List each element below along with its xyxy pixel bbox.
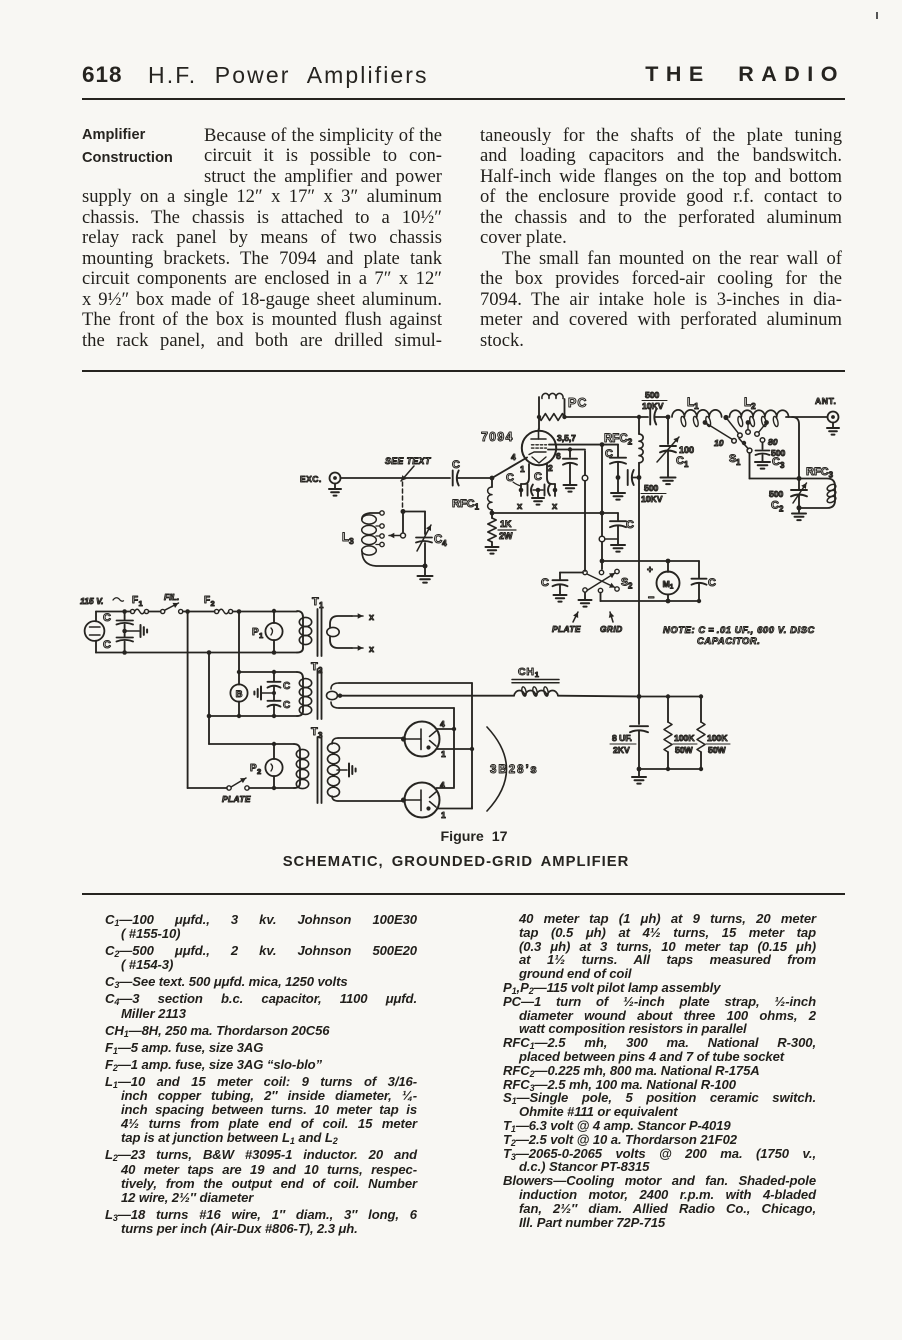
svg-text:2: 2 <box>628 582 633 591</box>
svg-text:L: L <box>342 532 349 544</box>
svg-text:2: 2 <box>548 463 553 473</box>
svg-text:C: C <box>771 500 779 512</box>
svg-text:C: C <box>534 471 542 483</box>
svg-text:x: x <box>369 644 374 654</box>
svg-text:−: − <box>648 592 654 604</box>
svg-text:L: L <box>687 397 694 409</box>
svg-text:C: C <box>103 612 111 624</box>
svg-text:C: C <box>708 577 716 589</box>
svg-text:C: C <box>452 459 460 471</box>
svg-text:PC: PC <box>568 396 587 410</box>
svg-text:500: 500 <box>645 390 660 400</box>
svg-text:4: 4 <box>442 538 447 548</box>
svg-text:4: 4 <box>511 452 516 462</box>
svg-text:P: P <box>250 763 257 774</box>
svg-text:2: 2 <box>751 401 756 411</box>
svg-text:GRID: GRID <box>600 624 623 634</box>
svg-text:2: 2 <box>257 767 261 776</box>
svg-text:2: 2 <box>211 599 215 608</box>
svg-text:1: 1 <box>694 401 699 411</box>
svg-text:2: 2 <box>779 505 784 514</box>
svg-text:x: x <box>552 501 558 512</box>
svg-text:CAPACITOR.: CAPACITOR. <box>697 635 760 646</box>
svg-text:1: 1 <box>441 749 446 759</box>
svg-text:1: 1 <box>259 631 263 640</box>
svg-text:CH1: CH1 <box>518 666 540 679</box>
svg-text:FIL.: FIL. <box>164 592 179 602</box>
svg-text:PLATE: PLATE <box>552 624 581 634</box>
svg-text:C: C <box>283 681 290 692</box>
svg-text:1: 1 <box>139 599 143 608</box>
svg-text:L: L <box>744 397 751 409</box>
svg-text:EXC.: EXC. <box>300 474 322 484</box>
svg-text:C: C <box>103 639 111 651</box>
svg-text:T: T <box>312 596 319 608</box>
svg-text:C: C <box>626 519 634 531</box>
svg-text:1: 1 <box>684 460 689 469</box>
svg-text:1K: 1K <box>500 519 512 529</box>
svg-text:C: C <box>772 456 780 468</box>
svg-text:P: P <box>252 627 259 638</box>
svg-text:1: 1 <box>441 810 446 820</box>
svg-text:+: + <box>647 565 653 576</box>
svg-text:1: 1 <box>520 464 525 474</box>
svg-text:10KV: 10KV <box>641 494 663 504</box>
svg-text:10KV: 10KV <box>642 401 664 411</box>
svg-text:M1: M1 <box>663 579 674 591</box>
svg-text:8 UF.: 8 UF. <box>612 733 632 743</box>
svg-text:10: 10 <box>714 438 724 448</box>
svg-text:T: T <box>311 726 318 738</box>
svg-text:x: x <box>517 501 523 512</box>
svg-text:100K: 100K <box>707 733 728 743</box>
svg-text:3: 3 <box>780 461 785 470</box>
svg-text:80: 80 <box>768 437 778 447</box>
svg-text:PLATE: PLATE <box>222 794 251 804</box>
svg-text:NOTE: C = .01 UF., 600 V. DISC: NOTE: C = .01 UF., 600 V. DISC <box>663 624 815 635</box>
svg-text:3,5,7: 3,5,7 <box>557 433 576 443</box>
svg-text:x: x <box>369 612 374 622</box>
svg-text:500: 500 <box>644 483 659 493</box>
svg-text:ANT.: ANT. <box>815 396 837 406</box>
svg-text:F: F <box>132 595 138 606</box>
svg-text:50W: 50W <box>675 745 694 755</box>
svg-text:SEE TEXT: SEE TEXT <box>385 456 431 466</box>
svg-text:50W: 50W <box>708 745 727 755</box>
svg-text:C: C <box>676 455 684 467</box>
svg-text:3B28’s: 3B28’s <box>490 764 539 776</box>
svg-text:F: F <box>204 595 210 606</box>
svg-text:6: 6 <box>556 451 561 461</box>
svg-text:4: 4 <box>440 780 445 790</box>
svg-text:100: 100 <box>679 445 694 455</box>
svg-text:1: 1 <box>736 458 741 467</box>
svg-text:4: 4 <box>440 719 445 729</box>
svg-text:2W: 2W <box>499 531 513 541</box>
svg-text:RFC3: RFC3 <box>806 466 834 480</box>
svg-text:3: 3 <box>349 536 354 546</box>
svg-text:RFC1: RFC1 <box>452 498 480 512</box>
svg-text:2KV: 2KV <box>613 745 630 755</box>
svg-text:100K: 100K <box>674 733 695 743</box>
svg-text:B: B <box>236 689 243 700</box>
svg-text:7094: 7094 <box>481 430 514 444</box>
svg-text:115 V.: 115 V. <box>80 596 103 606</box>
svg-text:C: C <box>541 577 549 589</box>
svg-text:500: 500 <box>769 489 784 499</box>
svg-text:C: C <box>283 700 290 711</box>
